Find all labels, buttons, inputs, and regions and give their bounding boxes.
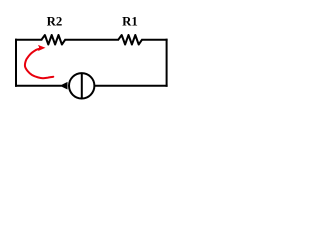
- svg-text:R1: R1: [122, 15, 138, 29]
- resistor R2: [42, 35, 66, 45]
- wire bottom-right segment: [94, 85, 167, 87]
- current source: [69, 73, 94, 98]
- mesh current arrow (red, clockwise): [25, 46, 53, 79]
- wire top-left segment: [15, 39, 42, 41]
- resistor R1: [118, 35, 142, 45]
- wire top-right segment: [141, 39, 167, 41]
- wire right side: [166, 39, 168, 87]
- wire top-middle segment: [65, 39, 120, 41]
- current direction arrow: [60, 82, 68, 90]
- svg-text:R2: R2: [47, 15, 63, 29]
- wire bottom-left segment: [15, 85, 62, 87]
- wire left side: [15, 39, 17, 87]
